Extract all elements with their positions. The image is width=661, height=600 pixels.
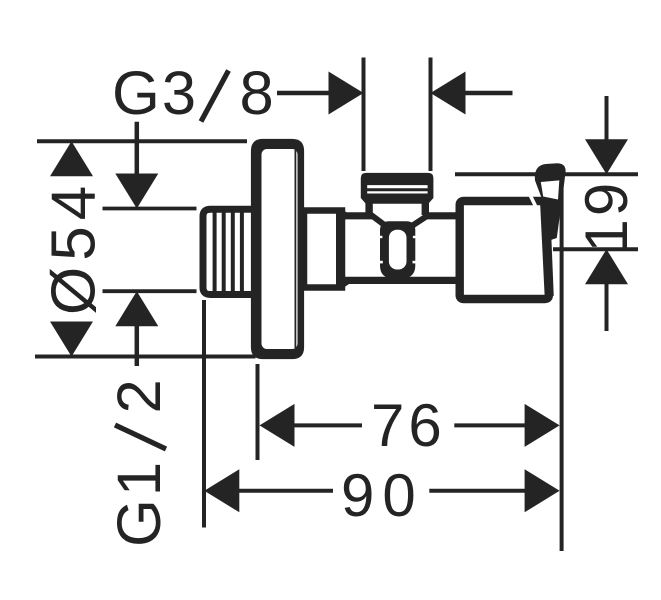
port flare right [411,215,429,227]
cartridge capsule outer [380,221,415,278]
thread line 2 [222,208,226,296]
valve: flange disc outer [251,139,304,359]
lever handle silhouette [535,163,566,240]
19 lower up arrow [585,249,628,284]
flange inner edge line [294,150,296,348]
capsule right waist notch lower [413,261,417,264]
capsule left waist notch upper [379,236,382,238]
G1/2 upper tick line [103,207,197,211]
Ø54 bottom extension line [35,355,256,359]
lever shaft interior [541,180,560,199]
dimension 76 line right stub [454,423,526,427]
19 bottom extension line [553,247,638,251]
svg-text:90: 90 [341,462,424,529]
svg-text:8: 8 [240,59,274,128]
19 lower dimension line [605,283,609,331]
arrow right toward left extension line [329,72,364,115]
dimension 90 line right stub [429,489,526,493]
G1/2 lower tick line [103,289,197,293]
body tube top line right segment [426,212,459,219]
thread line 3 [231,208,235,296]
G1/2 leader lower segment [135,325,140,366]
capsule right waist notch upper [413,236,416,238]
arrow left toward right extension line [431,72,466,115]
port flare left [371,215,387,227]
extension line top port left [362,58,366,172]
tail line of right arrow [465,91,513,96]
valve: body tube top line left segment [341,212,372,219]
thread line 4 [240,208,244,296]
90 right arrow [525,469,560,512]
neck-body chamfer bottom [339,281,349,288]
76 left extension line [256,364,260,460]
svg-text:G3: G3 [112,59,198,128]
76 right arrow [525,404,560,447]
neck joint vertical line [336,208,341,290]
G1/2 leader upper segment [135,122,140,175]
76 left arrow [260,404,295,447]
valve: neck between flange and body [304,211,342,288]
outlet box right edge reinforcement [546,204,550,297]
90 left arrow [204,469,239,512]
19 upper dimension line [605,96,609,141]
G1/2 up arrow [115,291,158,326]
svg-text:76: 76 [371,392,446,459]
dimension 90 line left stub [237,489,333,493]
body tube bottom line [341,277,459,284]
stem left column [365,203,372,215]
extension line top port right [429,58,433,172]
Ø54 top extension line [37,139,247,143]
cartridge capsule inner [389,230,407,270]
svg-text:19: 19 [573,180,640,253]
bonnet cap [361,173,434,204]
G3/8 fraction slash [201,71,229,122]
leader line G3/8 [277,91,330,96]
valve: threaded pipe G1/2 outline [203,209,254,294]
outlet box [460,201,549,299]
stem right column [422,203,429,215]
svg-text:G1: G1 [105,459,174,547]
G1/2 down arrow [115,174,158,209]
svg-text:Ø54: Ø54 [40,180,109,315]
lever slit through box border [530,195,536,208]
19 upper down arrow [585,139,628,174]
right extension line for 76 and 90 [560,176,564,551]
neck-body chamfer top [339,210,349,217]
flange disc inner face [262,149,298,349]
19 top extension line [455,172,638,176]
cap white line 2 [367,191,427,193]
cap white line 1 [367,185,427,188]
G1/2 fraction slash [115,425,166,449]
dimension 76 line left stub [292,423,362,427]
capsule left waist notch lower [379,261,383,264]
Ø54 up arrow [50,141,93,176]
thread line 1 [213,208,217,296]
svg-text:2: 2 [105,379,174,413]
Ø54 down arrow [50,322,93,357]
90 left extension line [202,300,206,528]
